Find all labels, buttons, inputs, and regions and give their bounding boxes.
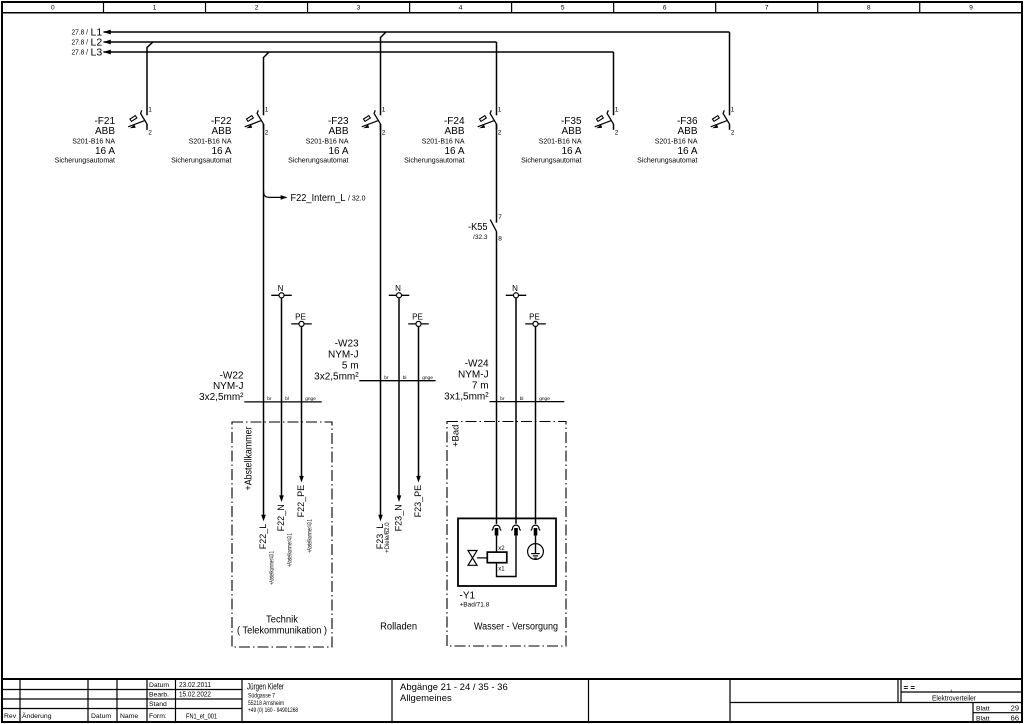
valve symbol (468, 551, 487, 566)
terminal N (circuit F24) (506, 284, 527, 298)
svg-text:7: 7 (498, 214, 502, 221)
svg-text:PE: PE (412, 313, 423, 322)
svg-text:S201-B16 NA: S201-B16 NA (306, 139, 349, 146)
wire F23_N destination arrow (397, 495, 402, 502)
svg-text:= =: = = (904, 683, 916, 692)
F23 pin numbers 1 2 (382, 107, 386, 137)
F36 pin numbers 1 2 (731, 107, 735, 137)
circuit breaker F23 (ABB S201-B16 NA 16A Sicherungsautomat) (362, 110, 381, 130)
wire F22 output (to Abstellkammer) (263, 124, 265, 515)
wire L1 tap to F23 (381, 32, 387, 115)
svg-text:+Abstellkammer/43.1: +Abstellkammer/43.1 (286, 533, 293, 567)
svg-text:Rolladen: Rolladen (380, 621, 417, 632)
terminal PE (circuit F24) (525, 313, 546, 327)
svg-text:Jürgen Kiefer: Jürgen Kiefer (247, 681, 284, 691)
net L2 (power rail) (72, 37, 497, 49)
svg-text:F23_PE: F23_PE (413, 485, 423, 518)
svg-text:Datum: Datum (149, 682, 169, 689)
svg-text:Sicherungsautomat: Sicherungsautomat (637, 158, 697, 165)
F24 pin numbers 1 2 (498, 107, 502, 137)
svg-text:-W23: -W23 (335, 339, 359, 350)
svg-text:-F24: -F24 (444, 116, 465, 127)
svg-text:29: 29 (1011, 704, 1019, 713)
svg-text:ABB: ABB (95, 126, 115, 137)
wire F23_PE (418, 327, 420, 476)
circuit breaker F36 (ABB S201-B16 NA 16A Sicherungsautomat) (711, 110, 730, 130)
svg-text:S201-B16 NA: S201-B16 NA (189, 139, 232, 146)
svg-text:1: 1 (615, 107, 619, 114)
wire F22_PE destination arrow (299, 476, 304, 483)
svg-text:x2: x2 (498, 546, 505, 552)
wire L3 tap to F22 (264, 52, 270, 115)
location box +Bad (447, 422, 566, 647)
label F22_N +Abstellkammer/43.1 (276, 504, 294, 567)
wire F22_N destination arrow (279, 495, 284, 502)
net F22_Intern_L branch arrow (264, 191, 288, 199)
svg-text:2: 2 (498, 130, 502, 137)
wire L2 tap to F21 (147, 42, 153, 115)
svg-text:16 A: 16 A (677, 146, 697, 157)
svg-text:ABB: ABB (328, 126, 348, 137)
svg-text:Änderung: Änderung (22, 712, 52, 720)
svg-text:2: 2 (382, 130, 386, 137)
svg-text:Südgasse 7: Südgasse 7 (248, 693, 275, 700)
wire L3 corner to F35 (613, 52, 615, 115)
wire F22_PE (301, 327, 303, 476)
F36 value labels (637, 116, 698, 165)
svg-text:gnge: gnge (539, 397, 550, 402)
svg-text:F23_N: F23_N (393, 504, 403, 531)
svg-text:NYM-J: NYM-J (328, 350, 359, 361)
svg-text:2: 2 (615, 130, 619, 137)
wire L2 corner to F24 (496, 42, 498, 115)
F24 value labels (404, 116, 465, 165)
title block (2, 679, 1022, 723)
W22 value labels (199, 370, 244, 403)
svg-text:x1: x1 (498, 566, 505, 572)
W23 core colour labels br bl gnge (384, 375, 433, 381)
svg-text:+49 (0) 160 - 94901268: +49 (0) 160 - 94901268 (248, 707, 298, 714)
svg-text:66: 66 (1011, 714, 1019, 723)
svg-text:Sicherungsautomat: Sicherungsautomat (171, 158, 231, 165)
svg-text:br: br (384, 375, 389, 381)
svg-text:-F23: -F23 (328, 116, 349, 127)
wire K55 to Y1 (496, 231, 498, 524)
svg-text:ABB: ABB (444, 126, 464, 137)
svg-text:Bearb.: Bearb. (149, 692, 169, 699)
svg-text:3x2,5mm²: 3x2,5mm² (199, 392, 244, 403)
svg-text:8: 8 (867, 5, 871, 12)
svg-text:Sicherungsautomat: Sicherungsautomat (55, 158, 115, 165)
device box Wasser-Versorgung (Y1) (458, 518, 556, 586)
svg-text:16 A: 16 A (211, 146, 231, 157)
svg-text:,: , (950, 683, 952, 692)
svg-text:5: 5 (561, 5, 565, 12)
F21 pin numbers 1 2 (148, 107, 152, 137)
svg-text:3x2,5mm²: 3x2,5mm² (314, 372, 359, 383)
cable W24 (490, 401, 565, 403)
label Wasser - Versorgung (474, 622, 558, 633)
svg-text:F22_L: F22_L (258, 524, 268, 550)
label Technik (Telekommunikation) (237, 614, 327, 636)
F22 pin numbers 1 2 (265, 107, 269, 137)
svg-text:NYM-J: NYM-J (213, 381, 244, 392)
svg-text:-F35: -F35 (561, 116, 582, 127)
net L3 (power rail) (72, 47, 614, 59)
svg-text:Sicherungsautomat: Sicherungsautomat (288, 158, 348, 165)
svg-text:1: 1 (153, 5, 157, 12)
svg-text:( Telekommunikation ): ( Telekommunikation ) (237, 625, 327, 636)
wire W24 N core (515, 298, 517, 524)
svg-text:L3: L3 (91, 47, 103, 59)
net L1 (power rail) (72, 27, 730, 39)
svg-text:Allgemeines: Allgemeines (400, 693, 452, 704)
label F22_PE +Abstellkammer/43.1 (296, 485, 314, 553)
svg-text:S201-B16 NA: S201-B16 NA (422, 139, 465, 146)
wire F22_L destination arrow (261, 515, 266, 522)
svg-text:F22_PE: F22_PE (296, 485, 306, 518)
svg-text:1: 1 (731, 107, 735, 114)
contact K55 (NO contact) (490, 220, 496, 232)
svg-text:ABB: ABB (211, 126, 231, 137)
svg-text:2: 2 (265, 130, 269, 137)
svg-text:bl: bl (403, 375, 407, 381)
connector pin L (Y1) (492, 525, 502, 536)
terminal N (circuit F23) (389, 284, 410, 298)
svg-text:S201-B16 NA: S201-B16 NA (655, 139, 698, 146)
circuit breaker F24 (ABB S201-B16 NA 16A Sicherungsautomat) (478, 110, 497, 130)
svg-text:16 A: 16 A (95, 146, 115, 157)
svg-text:S201-B16 NA: S201-B16 NA (539, 139, 582, 146)
svg-text:Datum: Datum (91, 713, 111, 720)
PE earth symbol (528, 536, 544, 560)
svg-text:8: 8 (498, 236, 502, 243)
W22 core colour labels br bl gnge (267, 396, 316, 402)
W24 core colour labels br bl gnge (500, 396, 550, 402)
svg-text:16 A: 16 A (444, 146, 464, 157)
wire F23 output (to Rolladen) (380, 124, 382, 515)
svg-text:2: 2 (731, 130, 735, 137)
svg-text:Sicherungsautomat: Sicherungsautomat (404, 158, 464, 165)
svg-text:0: 0 (51, 5, 55, 12)
label F22_L +Abstellkammer/43.1 (258, 524, 276, 585)
cable W23 (359, 380, 435, 382)
solenoid coil Y1 (487, 552, 507, 563)
circuit breaker F35 (ABB S201-B16 NA 16A Sicherungsautomat) (595, 110, 614, 130)
svg-text:-F36: -F36 (677, 116, 698, 127)
svg-text:br: br (500, 396, 505, 402)
svg-text:-W24: -W24 (465, 359, 489, 370)
svg-text:+Abstellkammer/43.1: +Abstellkammer/43.1 (306, 519, 313, 553)
W24 value labels (444, 359, 489, 403)
F21 value labels (55, 116, 116, 165)
svg-text:gnge: gnge (422, 376, 433, 381)
wire W24 PE core (535, 327, 537, 524)
svg-text:-F22: -F22 (211, 116, 232, 127)
K55 pin numbers 7 8 (498, 214, 502, 242)
svg-text:-Y1: -Y1 (460, 590, 476, 601)
svg-text:FN1_et_001: FN1_et_001 (186, 712, 217, 721)
connector pin PE (Y1) (531, 525, 541, 536)
svg-text:Name: Name (120, 713, 138, 720)
svg-text:Blatt: Blatt (976, 706, 990, 713)
label F22_Intern_L / 32.0 (291, 193, 366, 204)
svg-text:-W22: -W22 (220, 370, 244, 381)
svg-text:2: 2 (148, 130, 152, 137)
svg-text:/32.3: /32.3 (473, 234, 488, 241)
svg-text:N: N (278, 284, 284, 293)
svg-text:Blatt: Blatt (976, 716, 990, 723)
svg-text:Abgänge 21 - 24 / 35 - 36: Abgänge 21 - 24 / 35 - 36 (400, 682, 508, 693)
svg-text:ABB: ABB (677, 126, 697, 137)
wire F22_N (281, 298, 283, 495)
svg-text:3: 3 (357, 5, 361, 12)
svg-text:bl: bl (285, 396, 289, 402)
location box +Abstellkammer (232, 422, 332, 647)
wire Y1 coil x1 to pin N (497, 536, 517, 577)
K55 reference label /32.3 (468, 222, 488, 241)
svg-text:1: 1 (498, 107, 502, 114)
label F23_PE (413, 485, 423, 518)
svg-text:Wasser - Versorgung: Wasser - Versorgung (474, 622, 558, 633)
svg-text:F22_Intern_L: F22_Intern_L (291, 193, 346, 204)
F23 value labels (288, 116, 349, 165)
svg-text:55218 Arnsheim: 55218 Arnsheim (248, 700, 284, 707)
svg-text:27.8 /: 27.8 / (72, 50, 89, 57)
svg-text:+Abstellkammer: +Abstellkammer (244, 426, 255, 491)
svg-text:ABB: ABB (561, 126, 581, 137)
svg-text:Sicherungsautomat: Sicherungsautomat (521, 158, 581, 165)
svg-text:Technik: Technik (266, 614, 299, 625)
svg-text:N: N (395, 284, 401, 293)
label Rolladen (380, 621, 417, 632)
connector pin N (Y1) (511, 525, 521, 536)
svg-text:4: 4 (459, 5, 463, 12)
svg-text:bl: bl (520, 396, 524, 402)
svg-text:+Bad/71.8: +Bad/71.8 (460, 602, 490, 609)
svg-text:+Diele/62.0: +Diele/62.0 (384, 522, 391, 553)
svg-text:3x1,5mm²: 3x1,5mm² (444, 392, 489, 403)
label F23_L +Diele/62.0 (375, 522, 391, 553)
wire F24 output to contact K55 (496, 124, 498, 223)
terminal N (circuit F22) (271, 284, 292, 298)
svg-text:PE: PE (529, 313, 540, 322)
wire F23_L destination arrow (378, 515, 383, 522)
svg-text:N: N (512, 284, 518, 293)
wire F23_N (398, 298, 400, 495)
svg-text:16 A: 16 A (328, 146, 348, 157)
svg-text:23.02.2011: 23.02.2011 (179, 680, 211, 689)
label -Y1 +Bad/71.8 (460, 590, 490, 608)
svg-text:5 m: 5 m (342, 361, 359, 372)
svg-text:/ 32.0: / 32.0 (348, 196, 366, 203)
svg-text:Form:: Form: (149, 713, 167, 720)
cable W22 (244, 401, 321, 403)
svg-text:NYM-J: NYM-J (458, 370, 489, 381)
svg-text:15.02.2022: 15.02.2022 (179, 690, 211, 699)
svg-text:Elektroverteiler: Elektroverteiler (932, 694, 976, 703)
F35 pin numbers 1 2 (615, 107, 619, 137)
F22 value labels (171, 116, 232, 165)
svg-text:1: 1 (148, 107, 152, 114)
terminal PE (circuit F22) (291, 313, 312, 327)
svg-text:Stand: Stand (149, 701, 167, 708)
svg-text:F22_N: F22_N (276, 504, 286, 531)
svg-text:9: 9 (969, 5, 973, 12)
Y1 terminal labels x2 x1 (498, 546, 505, 573)
svg-text:-F21: -F21 (94, 116, 115, 127)
label F23_N (393, 504, 403, 531)
svg-text:gnge: gnge (305, 397, 316, 402)
W23 value labels (314, 339, 359, 383)
circuit breaker F21 (ABB S201-B16 NA 16A Sicherungsautomat) (128, 110, 147, 130)
svg-text:S201-B16 NA: S201-B16 NA (72, 139, 115, 146)
terminal PE (circuit F23) (408, 313, 429, 327)
svg-text:16 A: 16 A (561, 146, 581, 157)
svg-text:-K55: -K55 (468, 222, 488, 233)
wire F23_PE destination arrow (416, 476, 421, 483)
svg-text:27.8 /: 27.8 / (72, 40, 89, 47)
svg-text:7 m: 7 m (472, 381, 489, 392)
svg-text:PE: PE (295, 313, 306, 322)
svg-text:1: 1 (265, 107, 269, 114)
svg-text:+Abstellkammer/43.1: +Abstellkammer/43.1 (268, 551, 275, 585)
circuit breaker F22 (ABB S201-B16 NA 16A Sicherungsautomat) (245, 110, 264, 130)
svg-text:+Bad: +Bad (451, 425, 462, 447)
svg-text:2: 2 (255, 5, 259, 12)
svg-text:Rev: Rev (4, 713, 17, 720)
svg-text:7: 7 (765, 5, 769, 12)
F35 value labels (521, 116, 582, 165)
wire pin L to Y1 coil x2 (496, 536, 498, 553)
svg-text:br: br (267, 396, 272, 402)
svg-text:27.8 /: 27.8 / (72, 30, 89, 37)
svg-text:6: 6 (663, 5, 667, 12)
wire L1 corner to F36 (729, 32, 731, 115)
svg-text:1: 1 (382, 107, 386, 114)
